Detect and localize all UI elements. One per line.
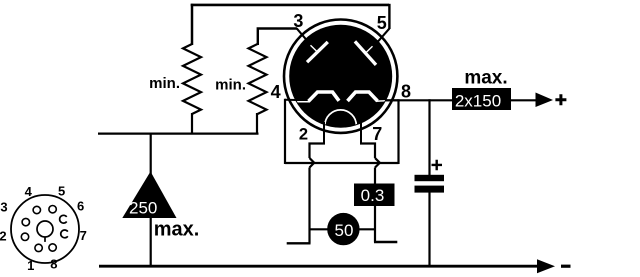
- wire pin5 corner drop: [388, 4, 390, 29]
- resistor R2 min.: [249, 44, 267, 114]
- socket key notch: [44, 237, 46, 242]
- cathode circle (white): [325, 110, 357, 142]
- svg-text:max.: max.: [154, 218, 200, 240]
- wire heater horizontal (pin4 to pin8 outer): [285, 162, 399, 164]
- label minus terminal: [561, 265, 571, 268]
- socket pin 1 hole: [35, 244, 42, 251]
- filament chevron left (white): [295, 92, 392, 141]
- transformer box 2x150: [452, 88, 511, 110]
- svg-text:6: 6: [77, 199, 84, 214]
- wire left vertical to R1: [191, 4, 194, 45]
- svg-text:4: 4: [25, 184, 33, 199]
- socket key circle: [37, 221, 53, 237]
- socket pin 7 hole (C): [61, 230, 68, 238]
- pin 5 lead: [374, 29, 389, 47]
- socket base diagram outer circle: [11, 195, 79, 263]
- wire mid horizontal rail: [98, 132, 259, 134]
- anode plate left (white): [307, 42, 328, 62]
- wire pin3 branch horizontal: [258, 29, 297, 46]
- socket pin 8 hole: [49, 244, 56, 251]
- svg-text:8: 8: [401, 81, 411, 101]
- capacitor 50 circle: [327, 213, 359, 245]
- svg-text:2: 2: [0, 229, 7, 244]
- label plus (capacitor): [432, 160, 443, 171]
- svg-text:2: 2: [299, 126, 308, 144]
- label plus terminal: [555, 94, 566, 105]
- pin 2 lead: [323, 122, 325, 144]
- wire R2 bottom lead: [256, 113, 258, 135]
- wire right heater stub: [374, 241, 397, 243]
- tube V1 anode disc: [289, 25, 392, 128]
- socket pin 2 hole: [21, 233, 28, 240]
- socket pin 5 hole: [49, 206, 56, 213]
- wire pin7 jog: [360, 144, 375, 159]
- arrow minus output: [537, 259, 555, 273]
- tube V1 envelope outer ring: [284, 19, 397, 132]
- wire top rail: [191, 4, 389, 7]
- resistor R1 min.: [183, 44, 201, 114]
- wire pin2 jog: [310, 144, 326, 159]
- socket pin 4 hole: [33, 206, 40, 213]
- wire pin4 outer vertical: [284, 99, 286, 164]
- wire right skirt vertical down: [374, 168, 376, 243]
- svg-text:1: 1: [27, 258, 34, 273]
- wire left skirt vertical down: [308, 168, 310, 244]
- svg-text:3: 3: [0, 200, 7, 215]
- svg-text:min.: min.: [215, 77, 246, 94]
- hop right over heater wire: [375, 158, 380, 168]
- wire 50 link horizontal: [310, 228, 376, 230]
- anode lead stub left (white): [311, 45, 318, 52]
- wire bottom rail: [99, 265, 538, 268]
- wire triangle branch vertical: [150, 133, 152, 175]
- anode lead stub right (white): [366, 46, 373, 53]
- svg-text:2x150: 2x150: [455, 92, 501, 111]
- svg-text:max.: max.: [464, 68, 507, 89]
- svg-text:min.: min.: [149, 75, 180, 92]
- socket pin 6 hole (C): [60, 215, 67, 223]
- wire cap branch vertical top: [428, 99, 430, 175]
- wire pin8 outer vertical: [397, 99, 399, 164]
- capacitor C1 plates: [415, 175, 445, 181]
- svg-text:5: 5: [58, 184, 65, 199]
- svg-text:7: 7: [372, 124, 382, 144]
- filament chevron right (white): [348, 92, 378, 101]
- svg-text:4: 4: [271, 82, 281, 102]
- svg-text:0.3: 0.3: [361, 186, 385, 205]
- anode plate right (white): [355, 41, 376, 65]
- voltage triangle 250 max: [122, 172, 176, 219]
- svg-text:5: 5: [377, 13, 387, 33]
- pin 7 lead: [360, 122, 362, 144]
- wire cap branch vertical bottom: [428, 192, 430, 267]
- svg-text:8: 8: [50, 257, 57, 272]
- svg-text:50: 50: [335, 221, 354, 240]
- svg-text:3: 3: [293, 11, 303, 31]
- arrow plus output: [536, 93, 554, 108]
- pin 8 lead: [385, 99, 399, 101]
- socket pin 3 hole: [22, 218, 29, 225]
- pin 4 lead: [285, 99, 297, 101]
- pin 3 lead: [297, 28, 310, 44]
- resistor block 0.3: [354, 184, 395, 207]
- hop left over heater wire: [310, 158, 315, 168]
- wire left heater stub: [287, 242, 311, 244]
- wire anode output horizontal: [386, 99, 537, 101]
- wire R1 bottom lead: [191, 113, 193, 135]
- svg-text:7: 7: [80, 228, 87, 243]
- svg-text:250: 250: [129, 199, 157, 218]
